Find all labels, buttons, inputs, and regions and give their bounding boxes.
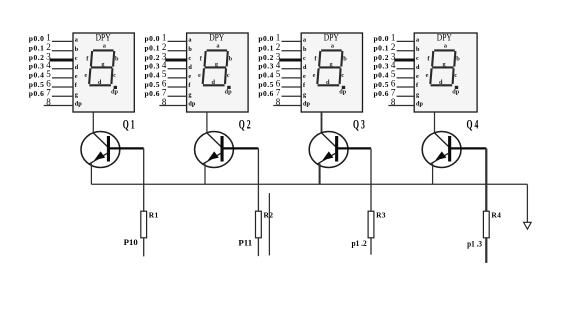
svg-text:Q1: Q1 xyxy=(123,119,137,132)
svg-text:p0.6: p0.6 xyxy=(374,89,390,98)
svg-text:d: d xyxy=(416,64,420,71)
svg-text:p0.4: p0.4 xyxy=(29,71,45,80)
svg-text:Q3: Q3 xyxy=(353,119,367,132)
svg-text:p0.1: p0.1 xyxy=(374,44,390,53)
svg-text:c: c xyxy=(113,72,116,79)
svg-text:d: d xyxy=(439,79,443,86)
svg-text:DPY: DPY xyxy=(209,32,224,43)
svg-text:c: c xyxy=(416,55,419,62)
svg-text:DPY: DPY xyxy=(96,32,111,43)
svg-text:e: e xyxy=(416,73,419,80)
svg-text:p0.4: p0.4 xyxy=(374,71,390,80)
svg-text:p0.5: p0.5 xyxy=(145,80,161,89)
svg-text:p0.6: p0.6 xyxy=(29,89,45,98)
svg-text:b: b xyxy=(343,55,347,62)
svg-text:b: b xyxy=(456,55,460,62)
svg-text:Q4: Q4 xyxy=(467,119,481,132)
svg-text:e: e xyxy=(426,72,429,79)
svg-text:d: d xyxy=(326,79,330,86)
svg-text:Q2: Q2 xyxy=(239,119,253,132)
svg-text:P10: P10 xyxy=(124,238,138,247)
svg-text:R3: R3 xyxy=(376,210,386,219)
svg-text:d: d xyxy=(188,64,192,71)
svg-text:p0.2: p0.2 xyxy=(258,53,274,62)
svg-text:p0.0: p0.0 xyxy=(29,34,45,43)
svg-text:e: e xyxy=(84,72,87,79)
svg-text:p0.0: p0.0 xyxy=(258,34,274,43)
svg-text:a: a xyxy=(303,37,306,44)
svg-text:d: d xyxy=(75,64,79,71)
svg-text:d: d xyxy=(98,79,102,86)
svg-text:dp: dp xyxy=(75,101,82,108)
svg-text:b: b xyxy=(115,55,119,62)
svg-text:p0.5: p0.5 xyxy=(258,80,274,89)
svg-text:p0.0: p0.0 xyxy=(374,34,390,43)
svg-text:R1: R1 xyxy=(149,210,159,219)
svg-text:e: e xyxy=(198,72,201,79)
svg-text:dp: dp xyxy=(303,101,310,108)
svg-text:dp: dp xyxy=(452,88,460,95)
svg-text:p0.1: p0.1 xyxy=(145,44,161,53)
svg-text:c: c xyxy=(341,72,344,79)
svg-text:b: b xyxy=(188,46,192,53)
svg-text:8: 8 xyxy=(162,97,167,107)
svg-text:p0.2: p0.2 xyxy=(145,53,161,62)
svg-text:e: e xyxy=(75,73,78,80)
svg-text:DPY: DPY xyxy=(437,32,452,43)
svg-text:b: b xyxy=(303,46,307,53)
svg-text:p1 .3: p1 .3 xyxy=(467,239,482,248)
svg-text:c: c xyxy=(75,55,78,62)
svg-text:a: a xyxy=(75,37,78,44)
svg-text:c: c xyxy=(188,55,191,62)
svg-text:e: e xyxy=(188,73,191,80)
svg-text:p0.6: p0.6 xyxy=(145,89,161,98)
svg-text:b: b xyxy=(75,46,79,53)
svg-text:e: e xyxy=(303,73,306,80)
svg-text:dp: dp xyxy=(188,101,195,108)
svg-text:d: d xyxy=(211,79,215,86)
svg-text:p0.3: p0.3 xyxy=(258,62,274,71)
svg-text:d: d xyxy=(303,64,307,71)
svg-text:p1 .2: p1 .2 xyxy=(352,239,367,248)
svg-text:p0.4: p0.4 xyxy=(145,71,161,80)
svg-text:P11: P11 xyxy=(238,239,252,248)
svg-text:p0.2: p0.2 xyxy=(374,53,390,62)
svg-text:p0.2: p0.2 xyxy=(29,53,45,62)
svg-text:dp: dp xyxy=(339,88,347,95)
svg-text:c: c xyxy=(227,72,230,79)
svg-text:dp: dp xyxy=(111,88,119,95)
svg-text:c: c xyxy=(303,55,306,62)
svg-text:8: 8 xyxy=(276,97,281,107)
svg-text:p0.6: p0.6 xyxy=(258,89,274,98)
svg-text:8: 8 xyxy=(391,97,396,107)
svg-text:a: a xyxy=(188,37,191,44)
svg-text:b: b xyxy=(416,46,420,53)
svg-text:p0.3: p0.3 xyxy=(374,62,390,71)
svg-text:R4: R4 xyxy=(491,210,501,219)
svg-text:p0.4: p0.4 xyxy=(258,71,274,80)
svg-text:R2: R2 xyxy=(264,210,274,219)
svg-text:dp: dp xyxy=(416,101,423,108)
svg-text:b: b xyxy=(229,55,233,62)
svg-text:c: c xyxy=(454,72,457,79)
svg-text:a: a xyxy=(416,37,419,44)
svg-text:8: 8 xyxy=(46,97,51,107)
svg-text:p0.0: p0.0 xyxy=(145,34,161,43)
svg-text:p0.3: p0.3 xyxy=(29,62,45,71)
svg-text:p0.5: p0.5 xyxy=(374,80,390,89)
svg-text:p0.1: p0.1 xyxy=(29,44,45,53)
svg-text:e: e xyxy=(313,72,316,79)
svg-text:DPY: DPY xyxy=(324,32,339,43)
svg-text:p0.5: p0.5 xyxy=(29,80,45,89)
svg-text:p0.1: p0.1 xyxy=(258,44,274,53)
svg-text:p0.3: p0.3 xyxy=(145,62,161,71)
svg-text:dp: dp xyxy=(225,88,233,95)
